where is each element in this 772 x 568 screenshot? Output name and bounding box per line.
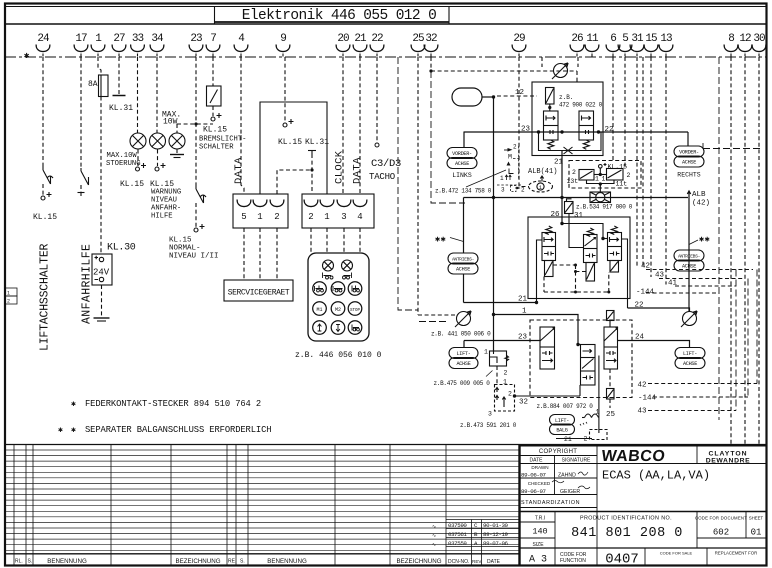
svg-text:NIVEAU: NIVEAU [151, 197, 177, 205]
svg-text:KL.15: KL.15 [33, 213, 57, 222]
pilot dashed lines [553, 265, 586, 292]
svg-text:26: 26 [571, 33, 583, 45]
pin 33 [131, 33, 145, 57]
svg-text:(42): (42) [692, 200, 710, 208]
svg-text:037559: 037559 [448, 540, 467, 547]
svg-text:ECAS (AA,LA,VA): ECAS (AA,LA,VA) [602, 469, 710, 483]
svg-text:∿: ∿ [432, 542, 436, 548]
diagnostic connector (3-pin) [233, 194, 288, 228]
remote btn memory M2 [331, 302, 345, 316]
wire pin5 to ALB relay [624, 57, 626, 169]
pin 11 [585, 33, 599, 57]
terminal KL.15 (pin9) [283, 119, 294, 127]
conn1 pin 2 [270, 200, 284, 223]
remote lamp right [342, 260, 353, 271]
svg-text:89-07-06: 89-07-06 [483, 540, 509, 547]
wire pin24 to lift-axle switch [42, 57, 44, 166]
svg-text:8A: 8A [88, 80, 98, 89]
svg-text:ACHSE: ACHSE [455, 161, 469, 167]
pin 32 [424, 33, 438, 57]
svg-text:KL.15: KL.15 [169, 237, 192, 245]
svg-text:8: 8 [728, 33, 734, 45]
svg-text:037561: 037561 [448, 531, 467, 538]
svg-text:24: 24 [635, 334, 645, 342]
svg-text:LIFTACHSSCHALTER: LIFTACHSSCHALTER [39, 243, 52, 351]
svg-text:z.B. 441 050 006 0: z.B. 441 050 006 0 [431, 331, 491, 338]
wire stub x643 [642, 57, 644, 268]
axle icon under left lamp [323, 273, 334, 280]
svg-text:z.B.473 591 201 0: z.B.473 591 201 0 [460, 422, 517, 429]
svg-text:MAX.10W: MAX.10W [107, 152, 138, 160]
svg-text:602: 602 [713, 528, 729, 538]
svg-text:13t: 13t [567, 178, 579, 185]
svg-text:FEDERKONTAKT-STECKER 894 510 7: FEDERKONTAKT-STECKER 894 510 764 2 [85, 399, 261, 409]
svg-text:7: 7 [210, 33, 216, 45]
wires conn1 to servicegeraet [243, 228, 245, 280]
svg-text:S.: S. [240, 559, 245, 565]
svg-text:01: 01 [751, 528, 762, 538]
lift valve L2 [581, 345, 596, 386]
svg-text:LIFT-: LIFT- [555, 418, 569, 424]
drive valve A pilot [545, 261, 554, 277]
svg-text:DATE: DATE [530, 458, 544, 464]
svg-text:29: 29 [513, 33, 525, 45]
svg-text:23: 23 [518, 334, 528, 342]
svg-text:LINKS: LINKS [452, 172, 472, 179]
svg-text:SIZE: SIZE [532, 542, 544, 548]
svg-text:5: 5 [622, 33, 628, 45]
axle icon under right lamp [343, 273, 352, 280]
svg-text:1: 1 [503, 379, 507, 386]
height sensor VORDER-ACHSE RECHTS [674, 146, 704, 157]
svg-text:26: 26 [551, 211, 561, 219]
svg-text:ANFAHR-: ANFAHR- [151, 205, 181, 213]
wire pin31 to bellows line [636, 57, 638, 268]
svg-text:841 801 208 0: 841 801 208 0 [571, 526, 683, 541]
svg-text:NORMAL-: NORMAL- [169, 245, 201, 253]
left internal line [537, 240, 543, 303]
svg-text:43: 43 [655, 272, 665, 280]
title box Elektronik 446 055 012 0 [214, 7, 216, 25]
drive axle ALB pressure line [464, 197, 689, 199]
svg-text:CLAYTON: CLAYTON [708, 451, 747, 458]
svg-text:KL.31: KL.31 [109, 104, 133, 113]
wire pin4 DATA to diag connector pin5 [241, 57, 244, 194]
svg-text:BENENNUNG: BENENNUNG [47, 558, 87, 565]
air reservoir capsule [452, 88, 482, 106]
title strip top rule [5, 6, 766, 8]
spring valve2 [583, 140, 589, 149]
svg-text:43: 43 [638, 408, 648, 416]
ALB valve dashed box [569, 161, 641, 189]
pin 12 [738, 33, 752, 57]
svg-text:BALG: BALG [556, 427, 567, 433]
switch normal-niveau [196, 186, 206, 203]
svg-text:-144: -144 [636, 289, 655, 297]
wire pin30 [758, 57, 760, 444]
svg-text:REPLACEMENT FOR: REPLACEMENT FOR [715, 551, 757, 556]
svg-text:2: 2 [274, 212, 279, 222]
svg-text:SHEET: SHEET [749, 516, 764, 521]
wire pin9 to KL.15 terminal [284, 57, 286, 122]
svg-text:23: 23 [521, 126, 531, 134]
wire pin13 to bellows line [665, 57, 667, 285]
pressure regulator z.B.534 917 000 0 (bowtie) [590, 192, 611, 203]
wire pin32 to central valve solenoid [430, 57, 432, 71]
wire pin17 to anfahrhilfe switch [80, 57, 82, 168]
bellows line 144 (drive) [646, 292, 719, 294]
wire pin25 to pressure sensor [417, 57, 419, 315]
lamp niveau warning [150, 133, 166, 149]
svg-text:DATA: DATA [352, 157, 364, 184]
drive valve A with spring [546, 226, 552, 234]
height sensor ANTRIEBS-ACHSE rechts [674, 250, 704, 261]
svg-text:T.R.I: T.R.I [535, 516, 545, 522]
svg-text:-144: -144 [638, 395, 657, 403]
svg-text:17: 17 [75, 33, 87, 45]
svg-text:KL.31: KL.31 [305, 138, 329, 147]
svg-text:VORDER-: VORDER- [452, 151, 472, 157]
svg-text:3: 3 [501, 187, 505, 194]
revision table grid [446, 520, 519, 566]
svg-text:M1: M1 [316, 307, 322, 313]
pin 6 [606, 33, 620, 57]
svg-text:z.B. 446 056 010 0: z.B. 446 056 010 0 [295, 351, 382, 360]
drive valve B with spring [587, 228, 593, 236]
svg-text:ACHSE: ACHSE [682, 160, 696, 166]
schematic/table divider [5, 444, 766, 446]
pressure switch z.B.475 009 005 0 [490, 351, 509, 366]
lift bellows LIFT-BALG [550, 415, 575, 426]
lift axle valve block dashed box [530, 320, 632, 398]
pin 22 [370, 33, 384, 57]
drive valve B pilot [586, 263, 595, 282]
remote btn up [313, 321, 327, 335]
pilot line 12 to central valve [497, 95, 537, 97]
svg-text:1: 1 [257, 212, 262, 222]
svg-text:SERCVICEGERAET: SERCVICEGERAET [228, 289, 290, 298]
svg-text:1: 1 [602, 176, 606, 183]
svg-text:VORDER-: VORDER- [679, 150, 699, 156]
svg-text:ALB(41): ALB(41) [528, 168, 557, 176]
bellows risers right [718, 57, 720, 420]
svg-text:WARNUNG: WARNUNG [151, 189, 181, 197]
port 21 line [464, 302, 537, 304]
svg-text:BEZEICHNUNG: BEZEICHNUNG [396, 558, 441, 565]
ALB41 dashed oval with port 1 [529, 181, 553, 192]
test gauge symbol (top) [552, 63, 568, 79]
brake light switch (bremslichtschalter) [207, 86, 222, 106]
svg-text:S.: S. [28, 559, 33, 565]
svg-text:1: 1 [522, 308, 527, 316]
battery 24V [92, 254, 112, 285]
svg-text:4: 4 [357, 212, 362, 222]
svg-text:037590: 037590 [448, 522, 467, 529]
pin 25 [411, 33, 425, 57]
svg-text:HILFE: HILFE [151, 213, 173, 221]
svg-text:z.B.884 007 972 0: z.B.884 007 972 0 [537, 403, 594, 410]
svg-text:21: 21 [354, 33, 367, 45]
svg-text:30: 30 [753, 33, 765, 45]
svg-text:140: 140 [532, 527, 547, 537]
svg-text:1: 1 [595, 176, 599, 183]
L2 dot junction [576, 343, 579, 346]
pointer line to part number [466, 170, 506, 187]
pin 4 [234, 33, 248, 57]
pin 8 [724, 33, 738, 57]
pin 31 [630, 33, 644, 57]
svg-text:BREMSLICHT-: BREMSLICHT- [199, 136, 246, 144]
svg-text:25: 25 [606, 411, 616, 419]
pin 15 [644, 33, 658, 57]
svg-text:✱✱: ✱✱ [435, 235, 446, 245]
svg-text:31: 31 [631, 33, 644, 45]
remote btn raise axle [313, 282, 327, 296]
svg-text:21: 21 [518, 296, 528, 304]
parts list header rule [5, 553, 519, 555]
svg-text:KL.15: KL.15 [608, 164, 628, 171]
svg-text:22: 22 [371, 33, 383, 45]
svg-text:SIGNATURE: SIGNATURE [562, 458, 591, 464]
svg-text:C3/D3: C3/D3 [371, 158, 401, 170]
svg-text:KL.15: KL.15 [120, 180, 144, 189]
svg-text:ACHSE: ACHSE [456, 267, 470, 273]
svg-text:C: C [474, 522, 478, 529]
svg-text:11: 11 [586, 33, 599, 45]
svg-text:DCN-NO.: DCN-NO. [448, 559, 469, 565]
svg-text:11t: 11t [616, 181, 628, 188]
wire pin23 to normal-niveau switch [195, 57, 197, 186]
svg-text:NIVEAU I/II: NIVEAU I/II [169, 253, 219, 261]
service connector (4-pin) [302, 194, 374, 228]
svg-text:2: 2 [508, 391, 512, 398]
line to port 21 [561, 151, 563, 224]
pin 26 [570, 33, 584, 57]
svg-text:31: 31 [574, 212, 584, 220]
svg-text:ACHSE: ACHSE [456, 361, 470, 367]
svg-text:1: 1 [500, 175, 504, 182]
svg-text:WABCO: WABCO [601, 447, 667, 465]
front axle valve block box [532, 82, 603, 156]
svg-text:∿: ∿ [432, 524, 436, 530]
svg-text:42: 42 [638, 382, 647, 390]
svg-text:SEPARATER BALGANSCHLUSS ERFORD: SEPARATER BALGANSCHLUSS ERFORDERLICH [85, 425, 271, 435]
pin 1 [91, 33, 105, 57]
svg-text:LIFT-: LIFT- [456, 351, 470, 357]
pin 30 [752, 33, 766, 57]
svg-text:89-06-07: 89-06-07 [521, 488, 547, 495]
svg-text:6: 6 [610, 33, 616, 45]
wire lamp3 to brake light KL.15 [176, 124, 178, 133]
svg-text:12: 12 [739, 33, 751, 45]
svg-text:ACHSE: ACHSE [682, 264, 696, 270]
lamp1 terminal KL.15 [137, 150, 139, 167]
svg-text:DATA: DATA [233, 157, 245, 184]
svg-text:10W: 10W [163, 118, 178, 127]
terminal KL.15 (lift axle switch) [41, 192, 52, 200]
axle group chain border left outer [398, 57, 418, 310]
lift solenoid bottom [607, 389, 615, 400]
conn1 pin 5 [237, 200, 251, 223]
bellows line 43 (drive) [659, 278, 745, 280]
svg-text:B: B [474, 531, 478, 538]
svg-text:32: 32 [425, 33, 437, 45]
solenoid feed 26 [565, 199, 574, 214]
switch liftachsschalter [43, 166, 53, 184]
svg-text:RECHTS: RECHTS [677, 172, 701, 179]
svg-text:BENENNUNG: BENENNUNG [267, 558, 307, 565]
button icons row3: up arrow, down arrow, axle [318, 324, 322, 331]
svg-text:2: 2 [504, 370, 508, 377]
lamp2 terminal KL.15 [157, 150, 159, 167]
pin 34 [150, 33, 164, 57]
bellows line 144 (lift) [653, 396, 748, 398]
wire pin22 to tacho C3/D3 [376, 57, 378, 142]
svg-text:TACHO: TACHO [369, 172, 395, 182]
svg-text:REV.: REV. [472, 559, 482, 564]
remote btn stop [348, 302, 362, 316]
wire pin7 to brake light switch [212, 57, 214, 86]
svg-text:CLOCK: CLOCK [334, 150, 346, 184]
svg-text:3: 3 [341, 212, 346, 222]
front axle pressure line 23-22 [464, 131, 689, 133]
svg-text:z.B.472 134 758 0: z.B.472 134 758 0 [435, 188, 492, 195]
parts list column rules [14, 445, 446, 566]
main supply line (vertical) [493, 97, 495, 351]
svg-text:FUNCTION: FUNCTION [560, 558, 586, 564]
pin 24 [36, 33, 50, 57]
svg-text:32: 32 [519, 399, 528, 407]
wire pin8 [730, 57, 732, 444]
pin 21 [353, 33, 367, 57]
svg-text:KL.15: KL.15 [278, 138, 302, 147]
svg-text:M: M [508, 154, 512, 161]
svg-text:23: 23 [190, 33, 202, 45]
axle group chain border left inner [431, 71, 465, 203]
parts list row rules [6, 450, 519, 550]
svg-text:M2: M2 [335, 307, 341, 313]
SERVICEGERAET box [224, 280, 293, 301]
drive axle valve block box [528, 217, 630, 299]
svg-text:ZAHND: ZAHND [558, 473, 576, 479]
svg-text:RL.: RL. [15, 559, 23, 565]
hand valve z.B.473 591 201 0 [495, 385, 515, 412]
ground KL.31 [113, 95, 126, 97]
svg-text:PRODUCT IDENTIFICATION NO.: PRODUCT IDENTIFICATION NO. [580, 516, 672, 522]
wires conn2 to remote control [310, 228, 312, 253]
terminal KL.15 brake [211, 113, 222, 121]
svg-text:DATE: DATE [487, 559, 501, 565]
pin 17 [74, 33, 88, 57]
height sensor LIFT-ACHSE rechts [675, 348, 705, 359]
svg-text:✱: ✱ [71, 426, 76, 435]
svg-text:9: 9 [280, 33, 286, 45]
svg-text:25: 25 [412, 33, 424, 45]
wire conn1 pin2 to KL.31 node [277, 170, 312, 194]
svg-text:STOERUNG: STOERUNG [106, 160, 141, 168]
wire pin33 to warning lamp 1 [137, 57, 139, 133]
svg-text:42: 42 [641, 263, 650, 271]
wire pin1 battery supply [98, 57, 101, 75]
pin 29 [512, 33, 526, 57]
svg-text:A: A [474, 540, 478, 547]
wire pin34 to lamp 2 [156, 57, 158, 133]
conn2 pin 3 [337, 200, 351, 223]
svg-text:STANDARDIZATION: STANDARDIZATION [521, 500, 580, 506]
ALB relay right [607, 169, 624, 181]
svg-text:13: 13 [660, 33, 672, 45]
svg-text:3: 3 [488, 411, 492, 418]
svg-text:ANTRIEBS-: ANTRIEBS- [452, 257, 474, 263]
pin 9 [276, 33, 290, 57]
svg-text:2: 2 [308, 212, 313, 222]
supply junction [560, 222, 563, 225]
svg-text:21: 21 [564, 436, 572, 443]
svg-text:34: 34 [151, 33, 164, 45]
front valve 2 (solenoid valve) [579, 111, 594, 140]
solenoid (central 2/2 valve) [546, 88, 555, 107]
remote control unit 446 056 010 0 [308, 253, 369, 341]
svg-text:GEIGER: GEIGER [560, 489, 580, 495]
port 22 line right [628, 308, 690, 312]
svg-text:2: 2 [513, 144, 517, 151]
solid diagnostic link conn1-pin1 to conn2-pin1 [260, 102, 327, 194]
svg-text:SCHALTER: SCHALTER [199, 144, 234, 152]
svg-text:Elektronik 446 055 012 0: Elektronik 446 055 012 0 [242, 8, 436, 24]
wire pin15 to bellows line [650, 57, 652, 277]
svg-text:33: 33 [132, 33, 144, 45]
svg-text:472 900 022 0: 472 900 022 0 [559, 102, 603, 109]
height sensor ANTRIEBS-ACHSE links [463, 198, 465, 254]
button icons row1 [315, 286, 324, 292]
conn2 pin 1 [320, 200, 334, 223]
remote lamp left [323, 260, 334, 271]
pressure sensor z.B. 441 050 006 0 [455, 311, 471, 327]
svg-text:∿: ∿ [432, 533, 436, 539]
svg-text:DRAWN: DRAWN [531, 465, 548, 470]
port 23 line (lift) [464, 340, 540, 342]
pin 23 [189, 33, 203, 57]
svg-text:A 3: A 3 [529, 555, 547, 566]
svg-text:5: 5 [241, 212, 246, 222]
title strip bottom rule [5, 23, 766, 25]
svg-text:24V: 24V [93, 268, 110, 278]
svg-text:2: 2 [627, 172, 631, 179]
svg-text:KL.30: KL.30 [107, 243, 136, 254]
drive valve C with spring [611, 226, 617, 234]
svg-text:ANTRIEBS-: ANTRIEBS- [678, 254, 700, 260]
svg-text:1: 1 [596, 409, 600, 416]
svg-text:2: 2 [572, 169, 576, 176]
svg-text:15: 15 [645, 33, 657, 45]
sensor port marks [497, 184, 521, 186]
svg-text:CODE FOR SALE: CODE FOR SALE [660, 551, 693, 556]
pin 13 [659, 33, 673, 57]
svg-text:CHECKED: CHECKED [528, 481, 551, 486]
pin 5 [618, 33, 632, 57]
svg-text:89-06-07: 89-06-07 [521, 472, 547, 479]
svg-text:LIFT-: LIFT- [683, 351, 697, 357]
svg-text:z.B.: z.B. [559, 94, 573, 101]
svg-text:24: 24 [37, 33, 50, 45]
svg-text:2: 2 [7, 299, 10, 305]
ALB output bracket to regulator [587, 180, 615, 193]
bellows line 41 (drive) [675, 285, 736, 287]
wire pin6 to KL.15 ALB [612, 57, 614, 161]
spring valve1 [548, 140, 554, 149]
port 32 line [513, 394, 516, 397]
ALB relay left [579, 170, 594, 181]
